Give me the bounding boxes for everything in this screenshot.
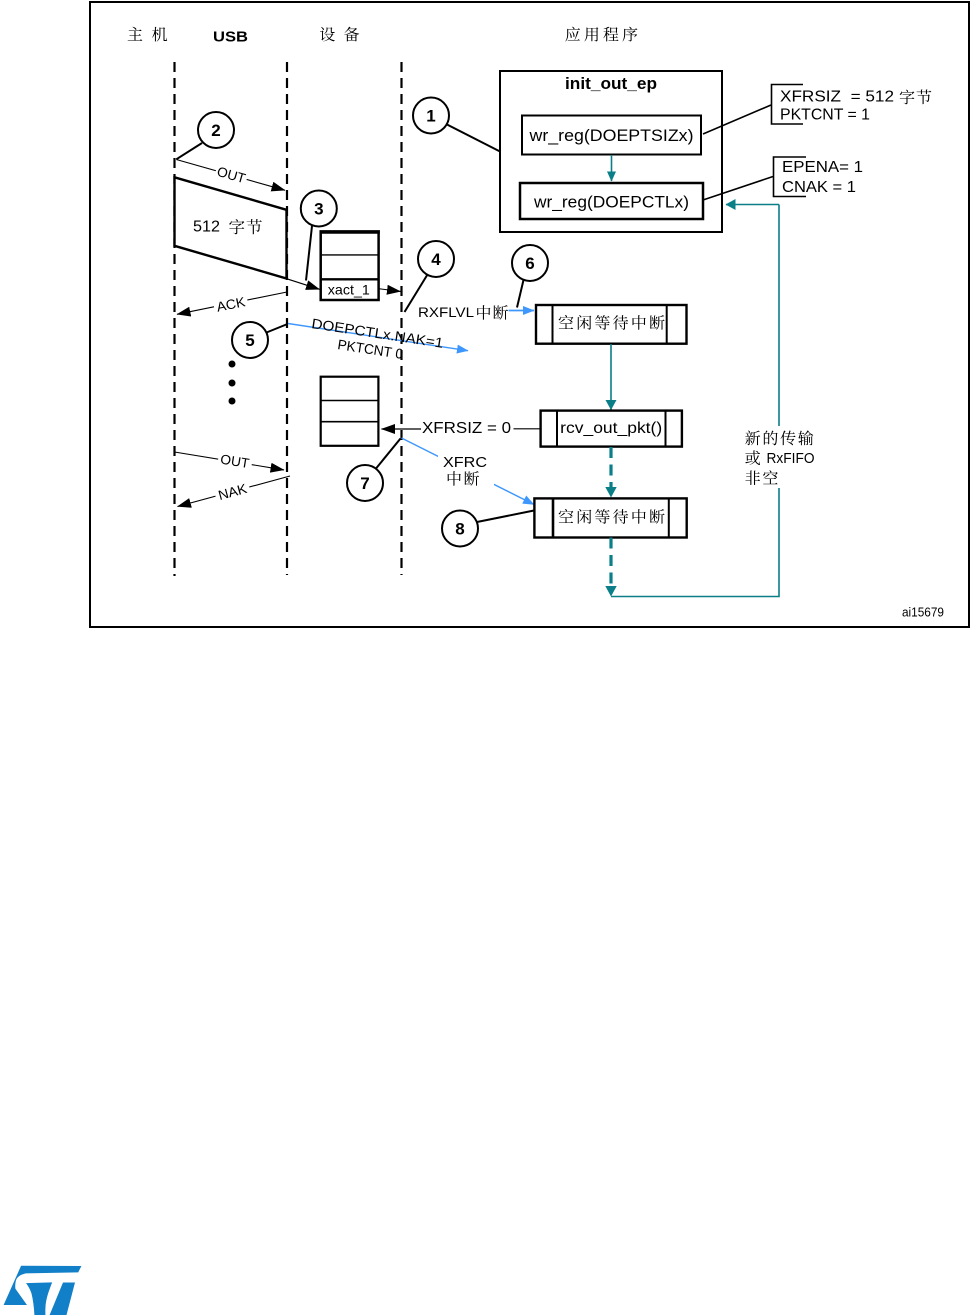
svg-text:EPENA= 1: EPENA= 1	[782, 159, 863, 176]
svg-text:wr_reg(DOEPTSIZx): wr_reg(DOEPTSIZx)	[528, 126, 693, 145]
box wr_reg(DOEPCTLx)	[520, 183, 703, 219]
header label: application (应用程序)	[565, 27, 637, 42]
arrow OUT (host to device)	[176, 160, 285, 191]
arrow xact_1 to app lifeline	[379, 289, 401, 292]
label PKTCNT 0	[337, 336, 405, 362]
arrow ACK (device to host)	[177, 292, 287, 314]
ellipsis dots	[229, 361, 236, 405]
svg-text:2: 2	[211, 121, 220, 140]
bracket EPENA label	[774, 157, 807, 197]
link line XFRSIZ=0 to rcv box	[514, 428, 541, 430]
svg-text:wr_reg(DOEPCTLx): wr_reg(DOEPCTLx)	[533, 193, 689, 212]
svg-text:RXFLVL: RXFLVL	[418, 304, 474, 320]
svg-text:PKTCNT = 1: PKTCNT = 1	[780, 107, 870, 124]
label new transfer or RxFIFO not empty	[740, 426, 818, 488]
blue line XFRC (lifeline to wait B)	[402, 438, 535, 505]
svg-text:USB: USB	[213, 29, 248, 46]
callout circle 1: init	[413, 98, 449, 134]
teal dashed arrow rcv to wait B	[609, 447, 612, 487]
lifeline: host	[173, 62, 175, 576]
svg-text:init_out_ep: init_out_ep	[565, 75, 657, 93]
arrow into xact_1	[287, 279, 320, 290]
teal arrow between wr_reg boxes	[611, 155, 613, 181]
box wait-for-interrupt B	[534, 498, 686, 537]
box rcv_out_pkt	[541, 411, 682, 447]
arrow XFRSIZ=0 into stack box	[382, 428, 422, 430]
svg-text:512: 512	[193, 219, 220, 236]
data packet parallelogram (512 bytes)	[175, 177, 287, 278]
callout circle 8: wait2	[442, 511, 478, 547]
svg-text:xact_1: xact_1	[328, 282, 370, 298]
blue arrow RXFLVL to wait box	[509, 310, 535, 312]
arrow OUT 2 (host to device)	[175, 452, 285, 470]
svg-text:XFRSIZ = 0: XFRSIZ = 0	[422, 420, 511, 437]
callout line to XFRSIZ label	[703, 105, 771, 134]
teal feedback line (new transfer / RxFIFO not empty)	[611, 205, 779, 597]
box init_out_ep outer	[500, 71, 722, 232]
callout line to EPENA label	[703, 177, 773, 201]
svg-text:4: 4	[431, 250, 441, 269]
header label: host (主 机)	[128, 27, 167, 42]
empty stack box (transfer complete)	[321, 377, 379, 446]
teal dashed arrow below wait B	[609, 538, 612, 586]
bracket XFRSIZ label	[772, 85, 804, 125]
label OUT 2	[217, 450, 253, 471]
label NAK	[213, 479, 251, 504]
arrow NAK (device to host)	[178, 476, 291, 507]
lifeline: USB/device	[286, 62, 288, 575]
svg-text:XFRSIZ = 512: XFRSIZ = 512	[780, 89, 894, 106]
svg-text:7: 7	[360, 474, 369, 493]
svg-text:5: 5	[245, 331, 254, 350]
callout circle 2: OUT	[198, 112, 234, 148]
label ACK	[212, 292, 249, 315]
label OUT	[214, 162, 249, 187]
header label: device (设 备)	[320, 27, 359, 42]
svg-text:3: 3	[314, 200, 323, 219]
ST logo	[4, 1266, 82, 1315]
svg-text:1: 1	[426, 107, 435, 126]
svg-text:6: 6	[525, 254, 534, 273]
svg-text:CNAK = 1: CNAK = 1	[782, 179, 856, 196]
svg-text:8: 8	[455, 520, 464, 539]
callout circle 3: xact	[301, 191, 337, 227]
svg-text:rcv_out_pkt(): rcv_out_pkt()	[560, 420, 662, 437]
label XFRC interrupt	[438, 452, 494, 487]
blue arrow DOEPCTLx.NAK (device to app)	[288, 324, 468, 351]
xact_1 stack box	[320, 232, 380, 301]
label DOEPCTLx.NAK=1	[311, 315, 445, 351]
outer frame	[90, 2, 969, 627]
callout circle 6: wait	[512, 245, 548, 281]
teal arrow wait A to rcv_out_pkt	[610, 344, 612, 410]
svg-text:ai15679: ai15679	[902, 605, 944, 620]
svg-text:XFRC: XFRC	[443, 454, 487, 471]
lifeline: application	[400, 62, 402, 575]
callout circle 5: nak-status	[232, 322, 268, 358]
box wait-for-interrupt A	[536, 305, 687, 344]
callout circle 4: rxflvl	[418, 241, 454, 277]
callout circle 7: xfrsiz0	[347, 465, 383, 501]
svg-text:RxFIFO: RxFIFO	[767, 450, 815, 467]
box wr_reg(DOEPTSIZx)	[522, 116, 701, 155]
